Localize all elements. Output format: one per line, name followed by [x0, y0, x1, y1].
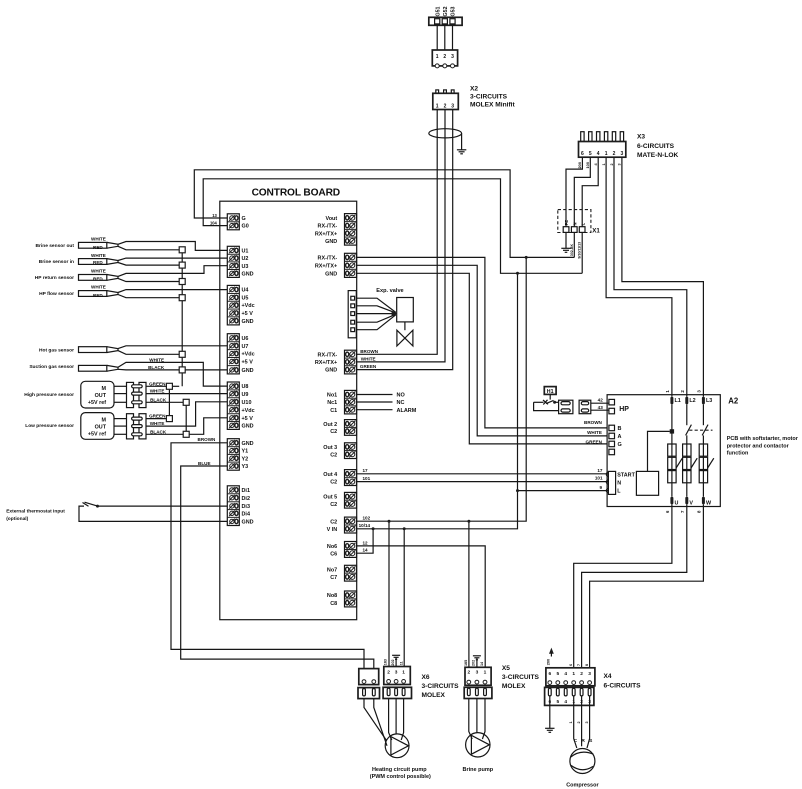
svg-text:1: 1 [436, 104, 439, 110]
wire BROWN GND to pump connector [171, 437, 364, 669]
junction bus suction gas [179, 367, 185, 373]
terminal strip U1-GND [227, 246, 253, 277]
svg-text:OUT: OUT [95, 393, 107, 399]
junction bus brine out [179, 247, 185, 253]
terminal strip No1 Nc1 C1 [327, 390, 357, 414]
wire suction gas WHITE to U8 [118, 358, 228, 387]
connector X5 receptacle [465, 667, 491, 685]
wire L dropper to V IN 10/14 [356, 273, 517, 529]
svg-text:GND: GND [242, 368, 254, 374]
svg-text:2: 2 [444, 104, 447, 110]
wire X2 pin1 BROWN to RX-/TX- [356, 110, 437, 355]
wire softstarter to L1 [648, 431, 670, 471]
svg-text:RX-/TX-: RX-/TX- [318, 352, 338, 358]
svg-text:BLACK: BLACK [150, 397, 167, 402]
svg-text:2: 2 [443, 54, 446, 60]
junction black LP [183, 431, 189, 437]
svg-text:4: 4 [564, 699, 567, 705]
connector X6 receptacle [384, 667, 411, 685]
wire brine out WHITE to U1 [91, 237, 228, 251]
svg-text:100: 100 [585, 162, 590, 169]
external thermostat switch [6, 502, 227, 522]
wire X1 L riser [581, 232, 583, 273]
connector X1 terminals PE N L [563, 220, 585, 233]
high pressure sensor body [24, 381, 114, 408]
svg-text:C6: C6 [330, 551, 337, 557]
ground stub X5 pin3 [473, 656, 481, 668]
svg-text:NO: NO [397, 393, 406, 399]
wire label 101 at A2 [595, 476, 603, 481]
svg-text:WHITE: WHITE [361, 356, 376, 361]
wire PWM blue to pump [374, 699, 387, 746]
svg-text:WHITE: WHITE [91, 269, 106, 274]
connector PWM plug [358, 688, 380, 699]
svg-text:3: 3 [451, 104, 454, 110]
wire V to X4 pin2 [582, 504, 687, 668]
wire G51 to plug [436, 25, 438, 50]
svg-text:101: 101 [595, 476, 603, 481]
svg-text:101: 101 [363, 476, 371, 481]
svg-text:9: 9 [599, 485, 602, 490]
brine pump [466, 733, 490, 757]
svg-text:GND: GND [325, 271, 337, 277]
sensor HP return sensor [35, 275, 118, 282]
terminal strip Vout RX RX GND [315, 214, 357, 246]
svg-text:C2: C2 [330, 429, 337, 435]
wire G0 to X1 L [203, 179, 582, 273]
svg-text:PCB with softstarter, motor: PCB with softstarter, motor [727, 436, 799, 442]
svg-text:G53: G53 [451, 6, 457, 16]
svg-text:2: 2 [580, 671, 583, 677]
terminal strip Di1-GND [227, 486, 253, 526]
svg-text:X4: X4 [604, 673, 612, 680]
svg-text:C: C [574, 738, 578, 744]
svg-text:2: 2 [577, 721, 581, 723]
svg-text:1: 1 [665, 390, 670, 393]
wire N dropper to C2 102 [356, 257, 526, 521]
wire suction gas BLACK to GND [118, 365, 228, 370]
svg-text:X6: X6 [422, 674, 430, 681]
svg-text:+Vdc: +Vdc [242, 408, 255, 414]
svg-text:1: 1 [569, 721, 573, 723]
wire X3 pin2 to A2 L2 [614, 157, 687, 397]
wire X3 pin6 to X1 PE [566, 157, 582, 227]
terminal strip U8-GND [227, 382, 254, 429]
svg-text:+Vdc: +Vdc [242, 352, 255, 358]
svg-text:S: S [589, 738, 593, 744]
wire X3 pin3 to A2 L3 [622, 157, 704, 397]
svg-text:GND: GND [242, 423, 254, 429]
terminal strip No6 C6 [327, 542, 357, 558]
svg-text:G: G [242, 216, 246, 222]
connector X6 plug [383, 687, 411, 698]
svg-text:High pressure sensor: High pressure sensor [24, 392, 74, 398]
svg-text:Nc1: Nc1 [327, 400, 337, 406]
terminal strip No8 C8 [327, 591, 357, 607]
svg-text:G: G [618, 442, 622, 448]
svg-text:+5V ref: +5V ref [88, 400, 106, 406]
svg-text:G51: G51 [435, 6, 441, 16]
high pressure switch contact [534, 400, 559, 411]
connector X4 plug [545, 687, 594, 705]
svg-text:MOLEX: MOLEX [422, 692, 446, 699]
svg-text:6: 6 [665, 510, 670, 513]
wire X3 pin1 to A2 L1 [606, 157, 672, 397]
svg-text:NC: NC [397, 400, 405, 406]
wire label GREEN at A2 [586, 440, 603, 445]
svg-text:2: 2 [610, 163, 614, 165]
wire LP sensor BLACK to +5V [146, 429, 183, 434]
sensor Brine sensor out [36, 242, 119, 248]
svg-text:2: 2 [387, 669, 390, 675]
svg-text:10/14: 10/14 [359, 523, 371, 528]
label PCB description [727, 436, 799, 457]
svg-text:HP return sensor: HP return sensor [35, 275, 74, 281]
svg-text:L3: L3 [706, 398, 712, 404]
svg-text:Di2: Di2 [242, 496, 250, 502]
svg-text:START: START [617, 472, 635, 478]
svg-text:1: 1 [436, 54, 439, 60]
label X6 3-CIRCUITS MOLEX [422, 674, 460, 699]
svg-text:GREEN: GREEN [586, 440, 603, 445]
svg-text:L2: L2 [689, 398, 695, 404]
svg-text:5: 5 [556, 671, 559, 677]
wire label 9/10/11/13 [578, 242, 582, 259]
wire labels at X5 [464, 660, 484, 666]
svg-text:8: 8 [696, 510, 701, 513]
svg-text:WHITE: WHITE [91, 253, 106, 258]
wire hot gas bottom to bus [118, 351, 179, 355]
wire label 17 at A2 [597, 468, 603, 473]
sensor Suction gas sensor [29, 364, 118, 371]
sensor Brine sensor in [39, 259, 118, 265]
svg-text:HP: HP [619, 406, 629, 413]
wire label WHITE at A2 [587, 430, 602, 435]
svg-text:2: 2 [613, 151, 616, 157]
A2 phase input L3 [696, 390, 712, 405]
svg-text:6-CIRCUITS: 6-CIRCUITS [637, 143, 675, 150]
svg-text:3: 3 [588, 671, 591, 677]
svg-text:function: function [727, 451, 749, 457]
A2 phase input L1 [665, 390, 681, 405]
svg-text:C2: C2 [330, 452, 337, 458]
expansion valve body [397, 330, 413, 346]
wire black chain to +5V [189, 418, 227, 435]
A2 overload elements L1 [668, 444, 683, 483]
svg-text:X1: X1 [592, 227, 600, 234]
label Exp. valve [376, 288, 403, 294]
svg-text:No6: No6 [327, 544, 337, 550]
svg-text:7: 7 [577, 664, 581, 666]
terminal strip Out5 C2 [323, 492, 356, 508]
svg-text:Y2: Y2 [242, 456, 249, 462]
label CONTROL BOARD [252, 187, 340, 198]
svg-text:1: 1 [572, 671, 575, 677]
connector X1 dashed outline [558, 210, 591, 233]
svg-text:L1: L1 [675, 398, 681, 404]
svg-text:RED: RED [93, 293, 103, 298]
svg-text:U9: U9 [242, 392, 249, 398]
svg-text:GREEN: GREEN [149, 381, 166, 386]
label Heating circuit pump [370, 767, 431, 780]
svg-text:11: 11 [400, 661, 404, 665]
svg-text:GND: GND [242, 441, 254, 447]
svg-text:3-CIRCUITS: 3-CIRCUITS [470, 94, 508, 101]
A2 terminals B A G [609, 425, 622, 455]
terminal block G51-G53 [429, 17, 462, 25]
A2 HP input terminals [609, 399, 629, 413]
svg-text:V: V [689, 500, 693, 506]
svg-text:WHITE: WHITE [587, 430, 602, 435]
pressure switch connector pair [559, 400, 591, 414]
ground stub X6 pin3 [392, 655, 400, 666]
svg-text:Out 4: Out 4 [323, 472, 337, 478]
svg-text:+Vdc: +Vdc [242, 303, 255, 309]
svg-text:12: 12 [363, 540, 369, 545]
ferrite ring on X2 cable [429, 129, 462, 138]
svg-text:A2: A2 [728, 397, 739, 406]
svg-text:No8: No8 [327, 593, 337, 599]
svg-text:G52: G52 [443, 6, 449, 16]
wire 42 to HP [591, 398, 609, 404]
wire C1 stub [356, 408, 416, 414]
svg-text:(PWM control possible): (PWM control possible) [370, 774, 431, 780]
svg-text:MATE-N-LOK: MATE-N-LOK [637, 152, 679, 159]
svg-text:External thermostat input: External thermostat input [6, 509, 65, 515]
svg-text:N: N [617, 480, 621, 486]
wire label 102 [363, 516, 371, 521]
junction 9 branch [516, 489, 519, 492]
PCB A2 outline [607, 395, 720, 507]
svg-text:202: 202 [391, 659, 395, 665]
label X2 3-CIRCUITS MOLEX Minifit [470, 86, 515, 109]
svg-text:+5 V: +5 V [242, 311, 254, 317]
A2 column L3 [702, 404, 708, 496]
svg-text:6: 6 [581, 151, 584, 157]
svg-text:RX+/TX+: RX+/TX+ [315, 231, 337, 237]
svg-text:M: M [102, 386, 107, 392]
wire label 13 [212, 213, 217, 218]
wire LP sensor WHITE to U10 [146, 402, 228, 426]
connector G51/G52/G53 labels [435, 6, 456, 16]
svg-text:L: L [617, 489, 621, 495]
terminal strip C2 VIN [327, 517, 357, 533]
A2 phase input L2 [680, 390, 696, 405]
svg-text:U2: U2 [242, 256, 249, 262]
svg-text:BLACK: BLACK [148, 365, 165, 370]
ground at X2 cable shield [457, 150, 466, 154]
svg-text:RX+/TX+: RX+/TX+ [315, 263, 337, 269]
wire C6 riser [356, 529, 373, 553]
svg-text:42: 42 [598, 398, 604, 403]
svg-text:3-CIRCUITS: 3-CIRCUITS [502, 674, 540, 681]
svg-text:Heating circuit pump: Heating circuit pump [372, 767, 427, 773]
wire X6 pin2 dropper [388, 521, 390, 666]
svg-text:U8: U8 [242, 384, 249, 390]
svg-text:X2: X2 [470, 86, 478, 93]
svg-text:BLACK: BLACK [150, 429, 167, 434]
wire HP return WHITE to U3 [91, 266, 228, 277]
svg-text:CONTROL BOARD: CONTROL BOARD [252, 187, 340, 198]
wire U to X4 pin1 [574, 504, 672, 668]
svg-text:3: 3 [618, 163, 622, 165]
wire label 200 at X4 [546, 648, 554, 666]
svg-text:+5 V: +5 V [242, 360, 254, 366]
svg-text:C1: C1 [330, 408, 337, 414]
svg-text:U7: U7 [242, 344, 249, 350]
svg-text:185: 185 [464, 660, 468, 666]
svg-text:14: 14 [363, 548, 369, 553]
wire Nc1 stub [356, 400, 404, 406]
A2 START N L contacts [606, 471, 635, 494]
svg-text:202: 202 [472, 660, 476, 666]
svg-text:WHITE: WHITE [150, 421, 165, 426]
wire 9 to A2 L [518, 490, 609, 492]
svg-text:3-CIRCUITS: 3-CIRCUITS [422, 683, 460, 690]
svg-text:WHITE: WHITE [91, 237, 106, 242]
junction green HP [166, 383, 172, 389]
svg-text:1: 1 [484, 670, 487, 676]
label Compressor [566, 782, 599, 788]
svg-text:Brine pump: Brine pump [463, 767, 494, 773]
svg-text:Out 3: Out 3 [323, 445, 337, 451]
svg-text:9/10/11/13: 9/10/11/13 [578, 242, 582, 259]
svg-text:3: 3 [696, 390, 701, 393]
svg-text:X5: X5 [502, 665, 510, 672]
svg-text:V IN: V IN [327, 527, 338, 533]
svg-text:U6: U6 [242, 336, 249, 342]
junction bus HP flow [179, 295, 185, 301]
junction X6 pin1 [403, 527, 406, 530]
svg-text:3: 3 [395, 669, 398, 675]
svg-text:PE: PE [564, 220, 569, 226]
wire GND to A2 G [356, 273, 607, 444]
wire HP sensor GREEN [146, 381, 166, 386]
svg-text:MOLEX: MOLEX [502, 683, 526, 690]
svg-text:Out 2: Out 2 [323, 422, 337, 428]
wire W to X4 pin3 [590, 504, 704, 668]
svg-text:A: A [618, 434, 622, 440]
svg-text:RX-/TX-: RX-/TX- [318, 224, 338, 230]
sensor common bus [181, 250, 183, 386]
ground at X1 PE [561, 248, 570, 252]
svg-text:Di4: Di4 [242, 511, 250, 517]
svg-text:GND: GND [242, 271, 254, 277]
svg-text:GND: GND [325, 368, 337, 374]
wire brine in WHITE to U2 [91, 253, 228, 260]
svg-text:Brine sensor in: Brine sensor in [39, 259, 74, 265]
svg-text:G0: G0 [242, 224, 249, 230]
labels C R S [574, 738, 594, 744]
wire label 104 [210, 221, 218, 226]
svg-text:200: 200 [577, 162, 582, 169]
svg-text:+5 V: +5 V [242, 416, 254, 422]
wire X1 PE to ground [565, 232, 567, 248]
wire ferrite to ground [461, 133, 463, 150]
svg-text:BROWN: BROWN [198, 437, 217, 442]
connector X3 body [579, 142, 626, 158]
svg-text:GREEN: GREEN [149, 414, 166, 419]
label Brine pump [463, 767, 494, 773]
junction bus hot gas [179, 351, 185, 357]
connector X3 pins [581, 132, 624, 142]
svg-text:3: 3 [476, 670, 479, 676]
A2 overload elements L2 [683, 444, 698, 483]
svg-text:1: 1 [602, 163, 606, 165]
junction softstarter L1 [670, 429, 674, 433]
high pressure sensor connector [114, 382, 146, 407]
svg-text:Di3: Di3 [242, 504, 250, 510]
svg-text:U5: U5 [242, 296, 249, 302]
svg-text:6-CIRCUITS: 6-CIRCUITS [604, 682, 642, 689]
wire label GREEN at RS485 [360, 364, 377, 369]
wire labels 200 100 under X3 [577, 162, 622, 169]
wire label BROWN at RS485 [360, 349, 379, 354]
junction N dropper [525, 256, 528, 259]
heating circuit pump [385, 734, 409, 758]
A2 softstarter block [636, 471, 658, 495]
svg-text:RED: RED [93, 245, 103, 250]
svg-text:4: 4 [594, 163, 598, 166]
svg-text:Out 5: Out 5 [323, 495, 337, 501]
terminal strip U6-GND [227, 334, 254, 374]
ground at X4 [545, 728, 554, 732]
wire LP sensor GREEN [146, 414, 166, 419]
green link vertical [168, 389, 170, 415]
connector expansion valve block [348, 291, 356, 338]
wire BLUE Y3 to pump connector [181, 461, 374, 669]
junction bus HP return [179, 279, 185, 285]
svg-text:102: 102 [363, 516, 371, 521]
svg-text:GND: GND [242, 319, 254, 325]
wire X3 pin5 to X1 N [574, 157, 590, 227]
svg-text:MOLEX Minifit: MOLEX Minifit [470, 102, 515, 109]
svg-text:+5V ref: +5V ref [88, 432, 106, 438]
wire label 9 [599, 485, 602, 490]
junction black HP [183, 399, 189, 405]
svg-text:200: 200 [546, 659, 551, 666]
svg-text:3: 3 [585, 721, 589, 723]
svg-text:4: 4 [597, 151, 600, 157]
low pressure sensor connector [114, 414, 146, 439]
wire X3 pin4 to X1 L [582, 157, 598, 227]
svg-text:5: 5 [589, 151, 592, 157]
svg-text:2: 2 [680, 390, 685, 393]
plug 1-2-3 below G5x block [432, 50, 457, 68]
svg-text:RX-/TX-: RX-/TX- [318, 256, 338, 262]
terminal strip RX RX GND lower [315, 350, 357, 374]
wire PWM brown to pump [364, 699, 386, 741]
svg-text:C2: C2 [330, 480, 337, 486]
junction L dropper [516, 272, 519, 275]
svg-text:6: 6 [548, 671, 551, 677]
wire No6 to X5 pin1 [356, 540, 485, 667]
svg-text:No7: No7 [327, 568, 337, 574]
svg-text:H1: H1 [547, 389, 554, 395]
label X5 3-CIRCUITS MOLEX [502, 665, 540, 690]
svg-text:104: 104 [210, 221, 218, 226]
svg-text:1: 1 [605, 151, 608, 157]
wire label 10/14 [359, 523, 371, 528]
A2 column L1 [671, 404, 673, 496]
svg-text:Hot gas sensor: Hot gas sensor [39, 348, 74, 354]
wire G to X1 N [194, 170, 574, 258]
wire X4 pin2 to compressor R [581, 696, 583, 746]
wire hot gas top to U7 [118, 346, 228, 349]
label X3 6-CIRCUITS MATE-N-LOK [637, 134, 679, 160]
wire X2 pin3 GREEN to GND [356, 110, 452, 370]
contactor dashed link [689, 429, 712, 431]
